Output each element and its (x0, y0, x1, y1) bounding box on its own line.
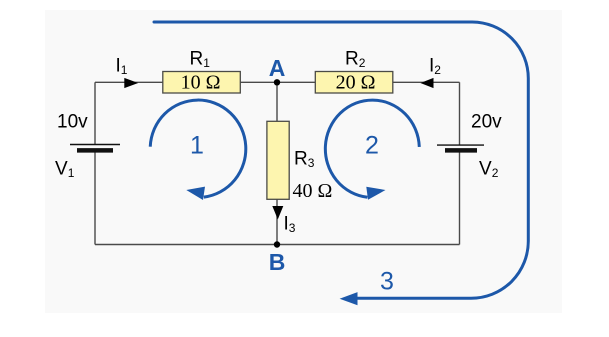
svg-text:B: B (269, 249, 286, 275)
svg-text:1: 1 (190, 132, 204, 160)
current arrow I2 (420, 78, 433, 88)
svg-text:A: A (269, 55, 286, 81)
loop 2 arc (325, 100, 419, 197)
svg-text:40 Ω: 40 Ω (293, 180, 333, 202)
svg-text:10v: 10v (57, 112, 88, 133)
wire right upper (459, 82, 461, 145)
wire left lower (94, 150, 96, 244)
current arrow I1 (124, 78, 138, 88)
svg-text:2: 2 (365, 132, 379, 160)
resistor R2 (315, 72, 393, 94)
wire R3 to node B (276, 199, 278, 244)
wire bottom (95, 244, 460, 246)
wire left upper (94, 82, 96, 144)
wire right lower (459, 150, 461, 244)
node A (274, 79, 280, 85)
panel background (45, 10, 562, 313)
svg-text:20v: 20v (471, 112, 502, 133)
loop 1 arrowhead (186, 187, 205, 200)
loop 3 arrowhead (340, 292, 358, 305)
loop 1 arc (150, 100, 246, 197)
loop 3 path (154, 22, 528, 298)
wire top (95, 81, 460, 83)
battery V2 (437, 145, 484, 150)
svg-text:3: 3 (380, 268, 394, 296)
resistor R1 (163, 72, 241, 94)
svg-text:20 Ω: 20 Ω (336, 72, 376, 94)
battery V1 (70, 145, 120, 151)
node B (274, 241, 280, 247)
resistor R3 (267, 121, 289, 199)
current arrow I3 (272, 206, 283, 219)
svg-text:10 Ω: 10 Ω (181, 72, 221, 94)
loop 2 arrowhead (366, 187, 385, 200)
wire node A to R3 (276, 82, 278, 121)
